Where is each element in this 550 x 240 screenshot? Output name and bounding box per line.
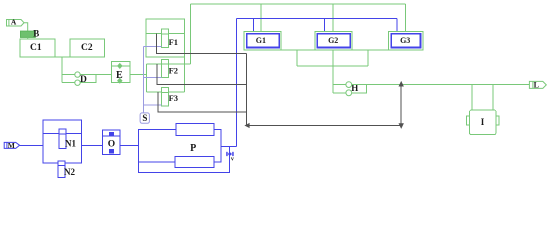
generator G1 — [244, 32, 281, 50]
wire C1-C2 bottom tie — [55, 56, 70, 58]
svg-text:N2: N2 — [64, 167, 75, 177]
fuse N2 — [58, 161, 65, 178]
svg-text:L: L — [534, 80, 539, 89]
wire E output — [130, 74, 146, 76]
trip wire riser S (purple) — [143, 46, 145, 113]
svg-text:P: P — [190, 143, 196, 154]
fuse F1 — [162, 29, 169, 47]
switch H — [333, 82, 366, 96]
wire down to switch D — [61, 57, 63, 83]
flag A — [7, 20, 25, 27]
flag M — [4, 142, 19, 148]
arrow left end measure bus — [244, 123, 249, 128]
wire drop to G2 — [332, 4, 334, 32]
wire G1-G2 bottom tie — [281, 49, 315, 51]
box C1 — [20, 39, 55, 57]
wire left leg down — [296, 50, 298, 66]
wire main distribution line to L — [352, 84, 530, 86]
wire F2 row — [146, 63, 190, 65]
svg-text:S: S — [142, 113, 147, 123]
svg-text:I: I — [481, 117, 485, 127]
svg-text:G1: G1 — [256, 36, 266, 45]
svg-text:v: v — [231, 156, 234, 162]
svg-text:F1: F1 — [169, 37, 178, 47]
measure tap F2 (dark) — [157, 64, 247, 85]
arrow up at main line — [399, 81, 404, 87]
svg-text:C2: C2 — [81, 43, 93, 53]
svg-text:D: D — [80, 75, 87, 85]
svg-text:B: B — [33, 28, 39, 38]
UPS E — [112, 62, 131, 84]
wire green top bus — [191, 3, 406, 5]
flag L — [529, 81, 546, 88]
wire riser x184.5 F3/F2 collector — [184, 19, 186, 92]
wire N to O — [81, 144, 102, 146]
breaker B (filled) — [21, 31, 36, 37]
generator G2 — [315, 32, 352, 50]
trip stub to F1 — [144, 45, 162, 47]
trip stub to F2 — [144, 77, 162, 79]
fuse F3 — [162, 88, 169, 106]
wire drop to G3 — [405, 4, 407, 32]
measure bus y125.5 (dark) — [247, 125, 402, 127]
enclosure N — [43, 120, 81, 163]
wire drop to G1 — [260, 4, 262, 32]
fuse F2 — [162, 59, 169, 77]
filter P top choke — [176, 123, 214, 135]
wire blue long riser down to P output — [236, 19, 238, 147]
wire feed vertical E to F2/F3 — [145, 64, 147, 92]
svg-text:E: E — [116, 70, 123, 81]
svg-text:O: O — [108, 140, 115, 150]
wire M to N box — [20, 144, 43, 146]
wire G2-G3 bottom tie — [352, 49, 388, 51]
wire blue control bus — [237, 18, 397, 20]
wire blue drop to G3 — [396, 19, 398, 32]
svg-text:M: M — [8, 141, 15, 150]
wire P lower loop — [139, 146, 230, 172]
measure tap F3 (dark) — [158, 92, 247, 112]
wire B to C1 — [27, 37, 29, 39]
generator G3 — [389, 32, 423, 50]
wire right leg down — [367, 50, 369, 66]
wire A to B — [24, 23, 28, 31]
box C2 — [70, 39, 105, 57]
filter P bottom choke — [175, 156, 214, 167]
converter O — [103, 130, 121, 155]
load I — [466, 85, 499, 135]
wire G2 center drop — [332, 50, 334, 93]
svg-text:C1: C1 — [30, 43, 42, 53]
trip stub to F3 — [144, 104, 162, 106]
enclosure box around F1 — [146, 19, 185, 57]
wire riser x190.5 to top bus — [190, 4, 192, 64]
svg-text:G3: G3 — [400, 36, 410, 45]
measure drop x401.2 (dark) — [400, 85, 402, 126]
filter P outer frame — [139, 129, 221, 162]
wire F1 row — [146, 33, 185, 35]
wire P output stub — [221, 145, 237, 147]
arrow down at measure bus — [399, 123, 404, 129]
wire N1 row — [43, 133, 81, 135]
measure tap F1 (dark) — [156, 34, 246, 54]
svg-text:G2: G2 — [328, 36, 338, 45]
switch D — [62, 72, 111, 86]
svg-text:A: A — [11, 18, 17, 27]
svg-text:N1: N1 — [65, 139, 76, 149]
measure riser x246.5 (dark) — [246, 54, 248, 126]
svg-text:F3: F3 — [169, 93, 178, 103]
svg-text:F2: F2 — [169, 66, 178, 76]
wire blue drop to G2 — [324, 19, 326, 32]
wire blue drop to G1 — [253, 19, 255, 32]
wire F3 row — [146, 91, 184, 93]
sensor S — [140, 113, 149, 123]
fuse N1 — [59, 129, 66, 149]
wire collector bar — [297, 65, 368, 67]
wire O to P — [120, 144, 139, 146]
valve symbol on loop — [226, 152, 234, 156]
